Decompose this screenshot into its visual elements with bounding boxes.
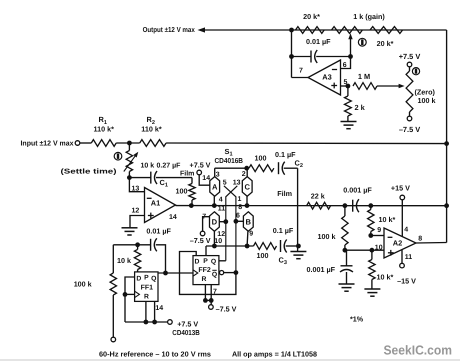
pin 8 A2 [418,235,422,242]
A3 plus [331,83,337,89]
label CD4013B [172,328,200,337]
svg-text:A2: A2 [393,239,402,248]
resistor 20k* right [370,27,403,34]
pin 7 FF2 [213,288,217,295]
wire B control [236,220,244,222]
svg-text:14: 14 [169,214,177,221]
resistor 20k* left [296,27,325,34]
resistor 1 M [353,83,377,90]
terminal -7.5V FF2 [209,305,214,310]
svg-text:CD4013B: CD4013B [172,328,200,337]
op-amp A2 [384,228,416,258]
svg-text:Input ±12 V max: Input ±12 V max [21,139,74,148]
footer line [0,359,460,361]
node A3 pin6 [348,54,353,59]
pin 4 A2 [404,226,408,233]
svg-text:FF2: FF2 [198,267,211,274]
label A2 [393,239,402,248]
label 10 k settle [141,161,155,169]
svg-text:Film: Film [180,169,194,177]
pin 9 S1 [249,231,253,238]
flip-flop FF1 box [135,272,158,302]
label 20 k* left [303,12,320,21]
A2 plus [388,250,394,256]
label S1 [225,147,233,158]
wire control C diagonal [226,186,238,261]
label 0.01 uF A3 [306,37,331,46]
svg-text:4: 4 [219,196,223,203]
wire FF2 to -7.5 [210,300,212,304]
wire FF1 R drop [145,301,147,322]
svg-text:20 k*: 20 k* [303,12,320,21]
terminal -7.5V zero [407,116,412,121]
wire FF1 Q line [158,272,193,274]
node C top [244,166,249,171]
switch C [242,177,252,197]
svg-text:(Settle time): (Settle time) [61,168,117,176]
pin 12 A1 [132,208,140,215]
node rail input line [444,141,449,146]
label 100 A1fb [176,186,188,195]
svg-text:8: 8 [238,204,242,211]
capacitor C2 0.1uF [279,162,285,175]
svg-text:A3: A3 [322,73,331,82]
label 0.1 uF C3 [273,226,294,235]
resistor 10 k FF1 [134,245,140,272]
A2 minus [388,236,393,238]
wire FF2 P drop [205,246,207,256]
wire C1 to 100 [156,177,192,179]
node 10k bottom top [370,248,375,253]
wire A3 output [292,77,309,79]
resistor 100 C3 [254,243,277,250]
pin 4 S1 [219,196,223,203]
switch B [243,212,253,232]
op-amp A3 [308,60,341,95]
wire C2C3 ground vertical [297,168,299,251]
label -15 V [397,276,416,285]
label 100 C3 [257,251,269,260]
wire B bottom [246,231,249,246]
label 10 k FF1 [117,256,131,265]
svg-text:+7.5 V: +7.5 V [399,52,421,61]
label (Settle time) [61,168,117,176]
wire A3 pin6 jog [341,57,351,69]
wire right rail [446,30,448,243]
node cap right [368,203,373,208]
wire pin10 to cap [346,250,348,266]
wire A2 output [416,242,447,245]
FF2 Qbar label [212,270,217,278]
wire S1 vdd [199,175,210,185]
svg-text:–7.5 V: –7.5 V [216,304,237,313]
node B bottom [245,244,250,249]
switch A [210,177,220,197]
capacitor 0.01 uF FF1 [151,238,157,251]
label C3 [279,256,287,267]
svg-text:1: 1 [238,196,242,203]
FF2 P label [203,258,208,265]
capacitor 0.001 bottom [340,266,353,272]
wire cap to Q [156,245,166,273]
wire A3 pin5 [341,85,348,87]
terminal +7.5V zero [407,62,412,67]
svg-text:10 k: 10 k [117,256,131,265]
resistor 22 k [307,202,331,209]
wire cap to gnd [346,272,348,284]
svg-text:5: 5 [223,179,227,186]
label R1 [99,115,107,126]
svg-text:12: 12 [132,208,140,215]
resistor 10 k* bottom [369,250,375,289]
pin 1 S1 [238,196,242,203]
svg-text:FF1: FF1 [141,284,154,291]
pin 7 A3 [299,68,303,75]
label C2 [295,158,303,169]
pin 11 S1 [218,205,226,212]
label 0.001 uF top [343,186,372,195]
label 0.001 uF bottom [307,265,336,274]
wire input to R1 [80,142,92,144]
label 100 k A2 [318,232,336,241]
svg-text:110 k*: 110 k* [141,125,162,134]
svg-text:0.01 µF: 0.01 µF [306,37,331,46]
resistor 100 C2 [249,165,274,172]
capacitor 0.001 top [353,199,359,212]
svg-text:10 k*: 10 k* [379,215,396,224]
svg-text:Q: Q [211,259,216,266]
wire A3 cap right [316,56,350,58]
wire pin11 [401,250,403,263]
svg-text:11: 11 [218,205,226,212]
flip-flop FF2 box [193,256,219,285]
svg-text:2 k: 2 k [355,103,366,112]
pin 6 S1 [236,212,240,219]
wire A bottom [213,196,215,205]
wire FF2 vss line [204,299,213,301]
capacitor C3 0.1uF [281,240,287,253]
node C3 gnd [296,244,301,249]
pin 10 S1 [214,238,222,245]
label R2 [147,115,155,126]
svg-text:0.1 µF: 0.1 µF [275,150,296,159]
wire pin13 [129,178,144,192]
switch D [210,212,220,232]
node FF1 clock [123,292,128,297]
svg-text:B: B [246,217,252,226]
svg-text:100: 100 [255,153,267,162]
svg-text:10: 10 [375,244,383,251]
svg-text:100 k: 100 k [74,279,92,288]
potentiometer zero 100k [406,67,413,116]
ground A1 [122,228,138,235]
svg-text:R: R [202,276,207,283]
wire C3 right [286,245,299,247]
label A3 [322,73,331,82]
wire FF2 R drop [204,285,206,301]
svg-text:–7.5 V: –7.5 V [399,125,420,134]
svg-text:All op amps = 1/4 LT1058: All op amps = 1/4 LT1058 [232,349,317,358]
resistor 10 k* top [368,206,374,236]
svg-text:D: D [212,217,218,226]
label 0.27 uF [157,162,182,169]
wire C2 to gnd line [284,167,298,169]
svg-text:7: 7 [299,68,303,75]
wire S1 vss [203,217,210,232]
svg-text:14: 14 [202,175,210,182]
label 1 k (gain) [353,12,385,21]
wire +15 to pin4 [401,200,403,237]
svg-text:D: D [136,275,141,282]
wire cap line FF1 [113,244,150,246]
node FF2 Qbar [234,270,239,275]
svg-text:10 k*: 10 k* [377,273,394,282]
wire A1 output line [176,205,447,207]
svg-text:100 k: 100 k [318,232,336,241]
wire FF1 bottom line [125,321,168,323]
label Output +-12 V max [143,25,195,34]
FF2 Qbar bubble [220,271,224,275]
pin 6 A3 [343,62,347,69]
node R1 R2 [127,141,132,146]
svg-text:100 k: 100 k [418,96,436,105]
node pin5 junction [346,84,351,89]
wire 100k top [112,245,114,273]
pin 14 FF1 [155,305,163,312]
svg-text:9: 9 [377,227,381,234]
FF1 Q label [151,275,156,282]
terminal -15V [400,263,405,268]
svg-text:1 k (gain): 1 k (gain) [353,12,385,21]
node rail A2 feedback [444,203,449,208]
ground 0.001 bottom [339,284,355,291]
wire pin12 gnd [130,216,144,228]
svg-text:0.001 µF: 0.001 µF [307,265,336,274]
resistor R1 110k [91,140,116,147]
svg-text:–7.5 V: –7.5 V [190,236,211,245]
label +7.5 V zero [399,52,421,61]
label 110 k* R1 [94,125,115,134]
wire FF2 Qbar out [224,272,236,274]
svg-text:12: 12 [217,231,225,238]
node pin10 [343,248,348,253]
pin 8 S1 [238,204,242,211]
label 1 M [358,72,370,81]
svg-text:2: 2 [242,171,246,178]
node D control [223,219,228,224]
svg-text:C: C [244,182,250,191]
wire C bottom [246,196,248,205]
wire D control [219,221,226,223]
wire FF2 pin7 drop [210,285,212,301]
node switch AD [212,203,217,208]
wire input rail right [166,142,447,145]
svg-text:6: 6 [236,212,240,219]
svg-text:110 k*: 110 k* [94,125,115,134]
label (Zero) [415,88,436,97]
svg-text:7: 7 [213,288,217,295]
label 100 C2 [255,153,267,162]
svg-text:P: P [203,258,208,265]
node D bottom [212,244,217,249]
svg-text:13: 13 [233,179,241,186]
svg-text:Q: Q [212,271,217,278]
node B control [234,219,239,224]
capacitor 0.01 uF A3 [311,50,317,63]
label -7.5 V S1 [190,236,211,245]
terminal -7.5V S1 [200,231,205,236]
label 0.01 uF FF1 [146,226,171,235]
pin 14 S1 [202,175,210,182]
ground A3 [341,122,357,129]
label A1 [151,198,160,207]
wire output line [201,29,447,31]
resistor 2 k [345,86,352,121]
FF2 Q label [211,259,216,266]
wire control A diagonal [224,186,236,273]
svg-text:P: P [144,275,149,282]
A3 minus [332,69,337,71]
svg-text:+15 V: +15 V [391,184,410,193]
wire FF2 Q out [219,260,226,262]
node 10k top [135,242,140,247]
FF1 P label [144,275,149,282]
svg-text:A: A [212,182,218,191]
svg-text:9: 9 [249,231,253,238]
svg-text:100: 100 [176,186,188,195]
label 110 k* R2 [141,125,162,134]
wire A top [214,168,216,176]
FF1 D label [136,275,141,282]
node FF1 Q [163,271,168,276]
wire A3 output up [291,30,293,78]
svg-text:Output ±12 V max: Output ±12 V max [143,25,195,34]
label +15 V [391,184,410,193]
svg-text:1 M: 1 M [358,72,370,81]
node FF1 14 bot [152,320,157,325]
wire 100k to term [112,295,114,337]
FF1 clock triangle [135,291,140,297]
label CD4016B [215,156,244,165]
svg-text:14: 14 [155,305,163,312]
label C1 [160,178,168,189]
svg-text:10 k: 10 k [141,161,155,169]
label +7.5 V S1 [190,160,211,169]
wire FF1 pin14 drop [154,301,156,322]
A1 minus [147,197,152,199]
pin 11 A2 [405,254,413,261]
label Input +-12 V max [21,139,74,148]
FF1 label [141,284,154,291]
label 100 k left [74,279,92,288]
svg-text:–15 V: –15 V [397,276,416,285]
wire 1M to zero pot [377,85,401,87]
svg-text:CD4016B: CD4016B [215,156,244,165]
trimmer screw gain [358,38,366,46]
node FF2 pin7 [209,298,214,303]
node 100 bottom [189,203,194,208]
label Film C1 [180,169,194,177]
terminal 60Hz [111,337,116,342]
svg-text:20 k*: 20 k* [377,39,394,48]
output arrowhead [198,27,206,32]
wire FF1 D loop [125,277,135,322]
arrow settle wiper [124,152,139,172]
node pin9 [368,233,373,238]
wire R1 to R2 [116,142,140,144]
pin 3 S1 [216,172,220,179]
node feedback left [289,28,294,33]
pin 10 A2 [375,244,383,251]
label 60-Hz reference [99,349,211,358]
svg-text:Q: Q [151,275,156,282]
svg-text:100: 100 [257,251,269,260]
wire switch top line [215,167,249,169]
wire pin9 line [371,235,384,237]
svg-text:+7.5 V: +7.5 V [190,160,211,169]
terminal +7.5V S1 [197,170,202,175]
pin 12 S1 [217,231,225,238]
A1 plus [148,213,154,219]
pin 5 A3 [344,79,348,86]
label *1% [350,314,364,323]
FF2 R label [202,276,207,283]
ground 10k* bottom [364,289,380,296]
label +7.5 V FF1 [177,319,198,328]
trimmer screw zero [412,68,419,75]
FF2 clock triangle [193,270,198,276]
svg-text:11: 11 [405,254,413,261]
FF2 label [198,267,211,274]
node FF2 R [203,298,208,303]
label 10 k* bottom [377,273,394,282]
svg-text:0.27 µF: 0.27 µF [157,162,182,169]
pin 14 A1 [169,214,177,221]
arrow zero wiper [399,84,405,88]
label SeekIC.com [384,343,453,358]
svg-text:0.01 µF: 0.01 µF [146,226,171,235]
svg-text:Film: Film [277,189,292,198]
pin 7 S1 [202,213,206,220]
wire FF2 toggle loop [180,252,236,295]
node FF1 R bot [144,320,149,325]
label 22 k [311,191,325,200]
wire DB line [206,245,254,247]
svg-text:8: 8 [418,235,422,242]
svg-text:0.001 µF: 0.001 µF [343,186,372,195]
wire FF1 clock stub [125,293,135,295]
FF2 D label [195,259,200,266]
label 20 k* right [377,39,394,48]
svg-text:6: 6 [343,62,347,69]
pin 13 S1 [233,179,241,186]
pin 2 S1 [242,171,246,178]
svg-text:SeekIC.com: SeekIC.com [384,343,453,358]
svg-text:R: R [144,293,149,300]
resistor 100 k A2 [342,206,348,251]
svg-text:60-Hz reference – 10 to 20 V r: 60-Hz reference – 10 to 20 V rms [99,349,211,358]
FF1 R label [144,293,149,300]
label 2 k [355,103,366,112]
svg-text:13: 13 [132,185,140,192]
svg-text:A1: A1 [151,198,160,207]
terminal +7.5V FF1 [168,320,173,325]
potentiometer settle 10k [126,143,132,178]
label -7.5 V FF2 [216,304,237,313]
wire pin10 line [345,249,384,251]
svg-text:D: D [195,259,200,266]
label All op amps [232,349,317,358]
